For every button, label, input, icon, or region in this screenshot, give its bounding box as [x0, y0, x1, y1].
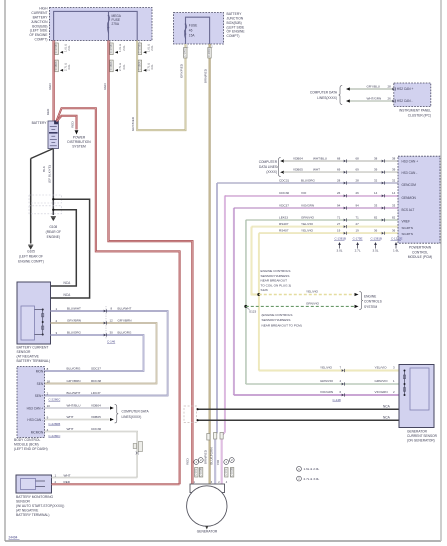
- svg-text:SIGRTN: SIGRTN: [402, 226, 413, 230]
- svg-text:C-175E: C-175E: [353, 237, 363, 241]
- page border right: [440, 0, 442, 541]
- dashed option outline lower: [29, 206, 62, 214]
- svg-text:RED: RED: [48, 82, 52, 89]
- battery positive terminal mark: [54, 121, 57, 124]
- svg-text:30: 30: [110, 331, 114, 335]
- svg-text:G105: G105: [27, 250, 35, 254]
- connector tag C-173B on fuse46 feed: [138, 43, 141, 55]
- generator bottom arrow: [205, 526, 208, 530]
- svg-text:BATTERY: BATTERY: [32, 121, 48, 125]
- svg-text:WHT: WHT: [67, 427, 74, 431]
- svg-text:19: 19: [337, 229, 341, 233]
- svg-text:BLU/ORG: BLU/ORG: [67, 331, 82, 335]
- svg-text:C-173B: C-173B: [109, 44, 113, 53]
- wire RED battery to power distribution: [57, 116, 77, 130]
- svg-text:(W/ AUTO START-STOP(XXXX)): (W/ AUTO START-STOP(XXXX)): [16, 504, 64, 508]
- svg-text:RS407: RS407: [279, 222, 289, 226]
- svg-text:CONTROLS: CONTROLS: [364, 300, 382, 304]
- svg-text:C-1222E: C-1222E: [391, 237, 402, 241]
- connector tag below fuse46 right pin: [208, 48, 211, 59]
- svg-text:C-180A: C-180A: [54, 61, 58, 70]
- IPC connector marks: [392, 88, 394, 91]
- svg-text:BOX(BJB): BOX(BJB): [32, 24, 47, 28]
- legend note 2: [297, 476, 302, 481]
- wire GN/VIO to generator current sensor pin1: [246, 383, 399, 385]
- svg-text:ENGINE: ENGINE: [364, 294, 376, 298]
- connector marks on RS407: [344, 225, 346, 228]
- wire BN/RD fuse 46 output to generator A terminal: [209, 44, 211, 484]
- svg-text:RED: RED: [64, 480, 71, 484]
- svg-text:SENSOR HARNESS: SENSOR HARNESS: [262, 318, 291, 322]
- svg-text:BLU/WHT: BLU/WHT: [67, 391, 81, 395]
- battery B1: [48, 121, 59, 149]
- wire RED battery to BMS feed: [57, 108, 180, 484]
- svg-text:33: 33: [392, 203, 396, 207]
- svg-text:(REAR OF: (REAR OF: [46, 230, 61, 234]
- svg-text:HS2 CAN +: HS2 CAN +: [397, 87, 414, 91]
- svg-text:C-102: C-102: [194, 468, 198, 476]
- svg-text:YEL/VIO: YEL/VIO: [301, 222, 314, 226]
- svg-text:S123: S123: [249, 310, 257, 314]
- svg-text:(ENGINE CONTROLS: (ENGINE CONTROLS: [262, 313, 293, 317]
- engine controls system brace: [359, 292, 363, 310]
- dashed option outline upper: [29, 195, 62, 203]
- connector marks on CDC31: [344, 182, 346, 185]
- svg-text:RDC38: RDC38: [91, 379, 101, 383]
- svg-text:19: 19: [356, 229, 360, 233]
- wire CDC31 BLU/ORG to PCM: [217, 182, 398, 184]
- connector marks on CDC30: [344, 194, 346, 197]
- svg-text:69: 69: [337, 168, 341, 172]
- connector tag C-173B on mega fuse wire: [110, 43, 113, 55]
- svg-text:C-1003: C-1003: [183, 48, 187, 57]
- svg-text:(XXXX): (XXXX): [266, 170, 277, 174]
- svg-text:RS407: RS407: [279, 229, 289, 233]
- dashed option outline near NCA: [184, 406, 197, 423]
- wire RS407 YEL/VIO to PCM: [252, 226, 399, 228]
- svg-text:LINES(XXXX): LINES(XXXX): [122, 415, 142, 419]
- svg-text:YEL/VIO: YEL/VIO: [320, 366, 333, 370]
- connector tag C-180A on battery feed: [55, 60, 58, 72]
- svg-text:14: 14: [392, 191, 396, 195]
- svg-text:3.0L: 3.0L: [150, 64, 154, 70]
- svg-text:(LEFT REAR OF: (LEFT REAR OF: [19, 254, 43, 258]
- svg-text:2.0L: 2.0L: [150, 45, 154, 51]
- svg-text:C-103B: C-103B: [230, 468, 234, 477]
- svg-text:69: 69: [356, 168, 360, 172]
- wire GY/BU IPC HS2 CAN+ to computer data lines: [349, 88, 394, 90]
- svg-text:71: 71: [356, 215, 360, 219]
- svg-text:C-2280B: C-2280B: [48, 422, 60, 426]
- svg-text:BLU/LTGRN: BLU/LTGRN: [210, 447, 214, 464]
- svg-text:32: 32: [374, 178, 378, 182]
- instrument panel cluster box (dashed): [394, 83, 431, 107]
- svg-text:GRY/RED: GRY/RED: [179, 63, 183, 78]
- BJB internal wire: [186, 17, 210, 44]
- svg-text:BLK: BLK: [42, 165, 46, 172]
- svg-text:C-103B: C-103B: [199, 468, 203, 477]
- battery junction box BJB (dashed box): [174, 13, 224, 45]
- svg-text:3.0L: 3.0L: [67, 64, 71, 70]
- svg-text:39: 39: [392, 168, 396, 172]
- svg-text:12: 12: [110, 319, 114, 323]
- svg-text:C-2280C: C-2280C: [48, 434, 61, 438]
- arrow IPC row1: [346, 87, 350, 90]
- svg-text:VDB04: VDB04: [293, 156, 303, 160]
- svg-text:RED: RED: [103, 82, 107, 89]
- in-line connector tag on BU/LTGN wire: [214, 433, 217, 440]
- svg-text:24494: 24494: [9, 536, 18, 540]
- svg-text:HS3 CAN -: HS3 CAN -: [402, 171, 418, 175]
- svg-text:RED: RED: [186, 457, 190, 464]
- ground G108: [51, 216, 56, 218]
- svg-text:14: 14: [374, 191, 378, 195]
- svg-text:CDC30: CDC30: [279, 191, 289, 195]
- wire GY/RD from HCBJB to BJB fuse 46: [137, 41, 185, 131]
- svg-text:GRN/VIO: GRN/VIO: [301, 215, 315, 219]
- svg-text:27: 27: [337, 222, 341, 226]
- wire WH/GN IPC HS2 CAN- to computer data lines: [349, 100, 394, 102]
- generator connector tags C-102 / C-103B left: [194, 460, 199, 465]
- connector marks on VDB05: [344, 171, 346, 174]
- wire RED from HCBJB to battery positive: [52, 41, 54, 122]
- dashed GN/VIO branch to engine controls system: [246, 305, 354, 307]
- wire LE423 GRN/VIO to PCM: [246, 219, 398, 221]
- svg-text:(LEFT SIDE: (LEFT SIDE: [30, 29, 49, 33]
- svg-text:3.0L: 3.0L: [122, 64, 126, 70]
- svg-text:CDC36: CDC36: [91, 427, 101, 431]
- svg-text:BLU/WHT: BLU/WHT: [118, 307, 132, 311]
- svg-text:BODY CONTROL: BODY CONTROL: [14, 438, 40, 442]
- svg-text:2.7L: 2.7L: [355, 248, 361, 252]
- svg-text:NCA: NCA: [64, 281, 72, 285]
- PCM connector arrows and engines: [338, 242, 341, 245]
- svg-text:MON: MON: [36, 369, 44, 373]
- legend note 1: [297, 466, 302, 471]
- wire VDB04 WHT/BLU to PCM: [284, 160, 399, 162]
- svg-text:36: 36: [374, 229, 378, 233]
- wire WH BCM MCMON to BMS: [45, 432, 138, 478]
- svg-text:HS2 CAN -: HS2 CAN -: [397, 99, 413, 103]
- svg-text:DISTRIBUTION: DISTRIBUTION: [67, 140, 91, 144]
- svg-text:26: 26: [337, 191, 341, 195]
- svg-text:C-2280C: C-2280C: [48, 398, 61, 402]
- svg-text:SYSTEM: SYSTEM: [72, 145, 86, 149]
- svg-text:3.0L: 3.0L: [336, 248, 342, 252]
- svg-text:SDC37: SDC37: [91, 367, 101, 371]
- wire BU/WHT BCS pin1 to BCM SEN+: [45, 311, 168, 396]
- wire RS407 YE/VIO down to generator current sensor: [258, 233, 260, 370]
- svg-text:SENSOR: SENSOR: [16, 499, 31, 503]
- arrow computer data row1: [280, 159, 284, 162]
- svg-text:WHT: WHT: [64, 473, 71, 477]
- svg-text:26: 26: [388, 96, 392, 100]
- svg-text:C-1003: C-1003: [207, 48, 211, 57]
- svg-text:2.0L: 2.0L: [67, 45, 71, 51]
- connector C-148 marks: [342, 369, 344, 372]
- svg-text:BLU/ORG: BLU/ORG: [67, 367, 82, 371]
- svg-text:SENSOR: SENSOR: [17, 350, 32, 354]
- svg-text:BRN/RED: BRN/RED: [204, 68, 208, 83]
- arrow computer data row2: [280, 171, 284, 174]
- svg-text:WHT: WHT: [313, 168, 320, 172]
- svg-text:GRN/VIO: GRN/VIO: [306, 302, 320, 306]
- svg-text:C-1381B: C-1381B: [335, 237, 346, 241]
- svg-text:TO COIL ON PLUG 3): TO COIL ON PLUG 3): [261, 283, 292, 287]
- svg-text:39: 39: [374, 168, 378, 172]
- svg-text:VREF: VREF: [402, 220, 411, 224]
- svg-text:MODULE (BCM): MODULE (BCM): [14, 443, 39, 447]
- svg-text:YEL/VIO: YEL/VIO: [301, 229, 314, 233]
- svg-text:18: 18: [47, 379, 51, 383]
- svg-text:15A: 15A: [189, 34, 196, 38]
- wire CDC30 VIO to PCM: [225, 195, 398, 197]
- svg-text:DATA LINES: DATA LINES: [259, 165, 277, 169]
- wire NCA battery negative to BCS lower: [51, 199, 90, 298]
- generator current sensor box: [399, 365, 434, 428]
- wire NCA generator current sensor lower: [198, 419, 400, 421]
- in-line connector on BMS data wire: [133, 444, 136, 449]
- svg-text:VIO: VIO: [301, 191, 307, 195]
- ground G105: [28, 244, 33, 246]
- arrow computer data lines row5: [110, 418, 114, 421]
- body control module box (dashed): [17, 367, 45, 438]
- connector tag C-173B on battery feed: [55, 43, 58, 55]
- svg-text:CLUSTER (IPC): CLUSTER (IPC): [408, 113, 431, 117]
- svg-text:94: 94: [337, 203, 341, 207]
- svg-text:28: 28: [356, 178, 360, 182]
- svg-text:MODULE (PCM): MODULE (PCM): [408, 255, 433, 259]
- arrow to power distribution system: [75, 130, 79, 134]
- svg-text:JUNCTION: JUNCTION: [227, 16, 244, 20]
- wire VDC37 VIO/GN down to generator current sensor: [233, 208, 235, 395]
- generator connector housing: [190, 484, 225, 493]
- svg-text:(LEFT END OF DASH): (LEFT END OF DASH): [14, 447, 48, 451]
- svg-text:VIO: VIO: [216, 459, 220, 465]
- connector marks on RS407: [344, 232, 346, 235]
- svg-text:NEAR BREAKOUT TO PCM): NEAR BREAKOUT TO PCM): [262, 323, 302, 327]
- svg-text:GRN/VIO: GRN/VIO: [375, 379, 389, 383]
- wire RS407 YEL/VIO to PCM: [259, 232, 398, 234]
- svg-text:82: 82: [374, 215, 378, 219]
- svg-text:NCA: NCA: [64, 293, 72, 297]
- svg-text:SENSOR HARNESS: SENSOR HARNESS: [261, 274, 290, 278]
- svg-text:G108: G108: [49, 225, 57, 229]
- wire LE423 GN/VIO down to generator current sensor: [245, 220, 247, 384]
- svg-text:GENMON: GENMON: [402, 196, 417, 200]
- svg-text:3.5L: 3.5L: [372, 248, 378, 252]
- generator current sensor inner element: [410, 368, 429, 410]
- svg-text:C-173B: C-173B: [54, 44, 58, 53]
- svg-text:CURRENT SENSOR: CURRENT SENSOR: [407, 434, 438, 438]
- svg-text:(LEFT SIDE: (LEFT SIDE: [227, 25, 246, 29]
- svg-text:COMPUTER DATA: COMPUTER DATA: [122, 410, 150, 414]
- svg-text:68: 68: [356, 156, 360, 160]
- svg-text:GRY/BRN: GRY/BRN: [67, 319, 81, 323]
- svg-text:RED: RED: [46, 108, 50, 115]
- svg-text:2.0L: 2.0L: [122, 45, 126, 51]
- wire WH BCM HS3 CAN- to computer data lines: [45, 419, 110, 421]
- svg-text:BLU/WHT: BLU/WHT: [67, 307, 81, 311]
- svg-text:GRY/BRN: GRY/BRN: [67, 379, 81, 383]
- wire CDC31 BU/ORG down to generator GENCOM: [215, 183, 217, 484]
- svg-text:C-180A: C-180A: [137, 61, 141, 70]
- svg-text:LDC37: LDC37: [91, 391, 101, 395]
- wire NCA generator current sensor upper: [198, 408, 400, 410]
- svg-text:HIGH: HIGH: [39, 7, 48, 11]
- svg-text:1.6L & 2.0L: 1.6L & 2.0L: [304, 467, 320, 471]
- svg-text:VDC37: VDC37: [279, 203, 289, 207]
- svg-text:(ON GENERATOR): (ON GENERATOR): [407, 438, 435, 442]
- wire RED mega fuse output to generator B+: [109, 41, 193, 485]
- wire VDB05 WHT to PCM: [284, 171, 399, 173]
- svg-text:68: 68: [337, 156, 341, 160]
- svg-text:46: 46: [189, 29, 193, 33]
- svg-text:10: 10: [47, 404, 51, 408]
- svg-text:POWERTRAIN: POWERTRAIN: [409, 246, 432, 250]
- svg-text:BRN/RED: BRN/RED: [203, 449, 207, 464]
- svg-text:COMPUTER: COMPUTER: [259, 160, 278, 164]
- svg-text:38: 38: [392, 156, 396, 160]
- svg-text:WHT/BLU: WHT/BLU: [67, 404, 81, 408]
- connector marks on VDB04: [344, 160, 346, 163]
- svg-text:WHT/GRN: WHT/GRN: [367, 96, 382, 100]
- svg-text:94: 94: [356, 203, 360, 207]
- svg-text:C-1381B: C-1381B: [371, 237, 382, 241]
- battery current sensor box: [17, 282, 51, 344]
- svg-text:CDC31: CDC31: [279, 178, 289, 182]
- svg-text:BCS ALT: BCS ALT: [402, 208, 415, 212]
- wire VIO/GN to generator current sensor pin2: [234, 394, 399, 396]
- svg-text:VDB05: VDB05: [293, 168, 303, 172]
- battery current sensor inner element: [21, 306, 35, 340]
- svg-text:28: 28: [337, 178, 341, 182]
- battery current sensor shunt link: [42, 310, 44, 335]
- svg-text:SEN: SEN: [37, 382, 44, 386]
- wire GY/BRN BCS pin2 to BCM SEN: [45, 323, 157, 384]
- in-line connector tag on BN/RD wire: [207, 434, 210, 441]
- svg-text:OF ENGINE: OF ENGINE: [29, 33, 48, 37]
- fuse 46 symbol: [185, 23, 187, 25]
- dashed YE/VIO branch to engine controls system: [259, 294, 354, 296]
- svg-text:HS3 CAN +: HS3 CAN +: [402, 160, 419, 164]
- svg-text:VDB05: VDB05: [91, 415, 101, 419]
- arrow computer data lines row4: [110, 406, 114, 409]
- svg-text:33: 33: [374, 203, 378, 207]
- svg-text:NCA: NCA: [383, 415, 391, 419]
- in-line connector tag on VIO wire: [220, 433, 223, 440]
- svg-text:HS3 CAN +: HS3 CAN +: [27, 406, 44, 410]
- svg-text:RED: RED: [70, 120, 74, 127]
- svg-text:GENCOM: GENCOM: [402, 183, 417, 187]
- svg-text:MCMON: MCMON: [31, 430, 44, 434]
- svg-text:BATTERY CURRENT: BATTERY CURRENT: [17, 346, 49, 350]
- generator connector tags C-102 / C-103B right: [224, 460, 229, 465]
- arrow IPC row2: [346, 99, 350, 102]
- svg-text:26: 26: [356, 191, 360, 195]
- svg-text:BLU/ORG: BLU/ORG: [118, 331, 133, 335]
- svg-text:71: 71: [337, 215, 341, 219]
- svg-text:(AT NEGATIVE: (AT NEGATIVE: [16, 508, 39, 512]
- svg-text:GENERATOR: GENERATOR: [197, 530, 218, 534]
- wire NCA battery negative to BCS upper: [51, 210, 77, 286]
- wire VDC37 VIO/GRN to PCM: [234, 207, 398, 209]
- svg-text:ENGINE CONTROLS: ENGINE CONTROLS: [261, 269, 291, 273]
- svg-text:2.7L & 3.0L: 2.7L & 3.0L: [304, 477, 320, 481]
- svg-text:ENGINE): ENGINE): [47, 235, 60, 239]
- battery monitoring sensor box: [16, 475, 52, 493]
- svg-text:YEL/VIO: YEL/VIO: [306, 290, 319, 294]
- svg-text:GRY/RED: GRY/RED: [131, 116, 135, 131]
- svg-text:32: 32: [392, 178, 396, 182]
- mega fuse symbol: [108, 15, 110, 17]
- svg-text:BATTERY TERMINAL): BATTERY TERMINAL): [17, 359, 50, 363]
- svg-text:C-146: C-146: [107, 340, 116, 344]
- svg-text:YEL/VIO: YEL/VIO: [375, 366, 388, 370]
- wire RS407 YE/VIO upper branch to splice: [252, 227, 259, 295]
- GCS shunt link: [404, 371, 406, 396]
- svg-text:CONTROL: CONTROL: [412, 250, 428, 254]
- svg-text:(AT NEGATIVE: (AT NEGATIVE: [17, 355, 40, 359]
- svg-text:28: 28: [388, 84, 392, 88]
- svg-text:BATTERY TERMINAL): BATTERY TERMINAL): [16, 513, 49, 517]
- connector marks on VDC37: [344, 207, 346, 210]
- svg-text:27: 27: [356, 222, 360, 226]
- svg-text:36: 36: [392, 229, 396, 233]
- svg-text:OF ENGINE: OF ENGINE: [227, 30, 246, 34]
- svg-text:LE423: LE423: [279, 215, 288, 219]
- svg-text:NEAR BREAKOUT: NEAR BREAKOUT: [261, 279, 288, 283]
- svg-text:BLU/ORG: BLU/ORG: [301, 178, 316, 182]
- svg-text:VIO/GRN: VIO/GRN: [375, 390, 388, 394]
- splice S126 dot: [257, 293, 260, 296]
- svg-text:38: 38: [374, 156, 378, 160]
- svg-text:GRY/BLU: GRY/BLU: [367, 84, 381, 88]
- page border left: [4, 0, 6, 541]
- svg-text:S126: S126: [261, 288, 269, 292]
- wire BLK battery negative to ground G105: [31, 149, 54, 159]
- svg-text:NCA: NCA: [383, 404, 391, 408]
- connector tag C-180A on mega fuse wire: [110, 60, 113, 72]
- svg-text:C-180A: C-180A: [109, 61, 113, 70]
- svg-text:WHT: WHT: [67, 415, 74, 419]
- HCBJB internal bus wire: [54, 11, 138, 40]
- computer data lines brace: [115, 405, 119, 424]
- svg-text:LINES(XXXX): LINES(XXXX): [317, 96, 337, 100]
- svg-text:(EF BLK/YE): (EF BLK/YE): [47, 165, 51, 183]
- svg-text:275A: 275A: [112, 22, 120, 26]
- svg-text:BOX(BJB): BOX(BJB): [227, 21, 242, 25]
- svg-text:SEN+: SEN+: [35, 394, 44, 398]
- wire YE/VIO to generator current sensor pin3: [259, 370, 399, 372]
- svg-text:GENERATOR: GENERATOR: [407, 430, 428, 434]
- svg-text:GRN/VIO: GRN/VIO: [320, 379, 334, 383]
- svg-text:BATTERY: BATTERY: [227, 12, 243, 16]
- svg-text:1.6L: 1.6L: [393, 248, 399, 252]
- connector tag C-180A on fuse46 feed: [138, 60, 141, 72]
- svg-text:BATTERY MONITORING: BATTERY MONITORING: [16, 495, 54, 499]
- page border bottom: [5, 540, 441, 542]
- wire WH/BU BCM HS3 CAN+ to computer data lines: [45, 407, 110, 409]
- BMS pin2 wire RED: [52, 483, 180, 485]
- battery monitoring sensor inner element: [21, 479, 36, 490]
- connector C-146 marks: [104, 310, 106, 313]
- svg-text:VIO/GRN: VIO/GRN: [320, 390, 333, 394]
- svg-text:VDB04: VDB04: [91, 404, 101, 408]
- connector marks on LE423: [344, 219, 346, 222]
- svg-text:COMPT): COMPT): [227, 34, 240, 38]
- splice S123 dot: [244, 305, 247, 308]
